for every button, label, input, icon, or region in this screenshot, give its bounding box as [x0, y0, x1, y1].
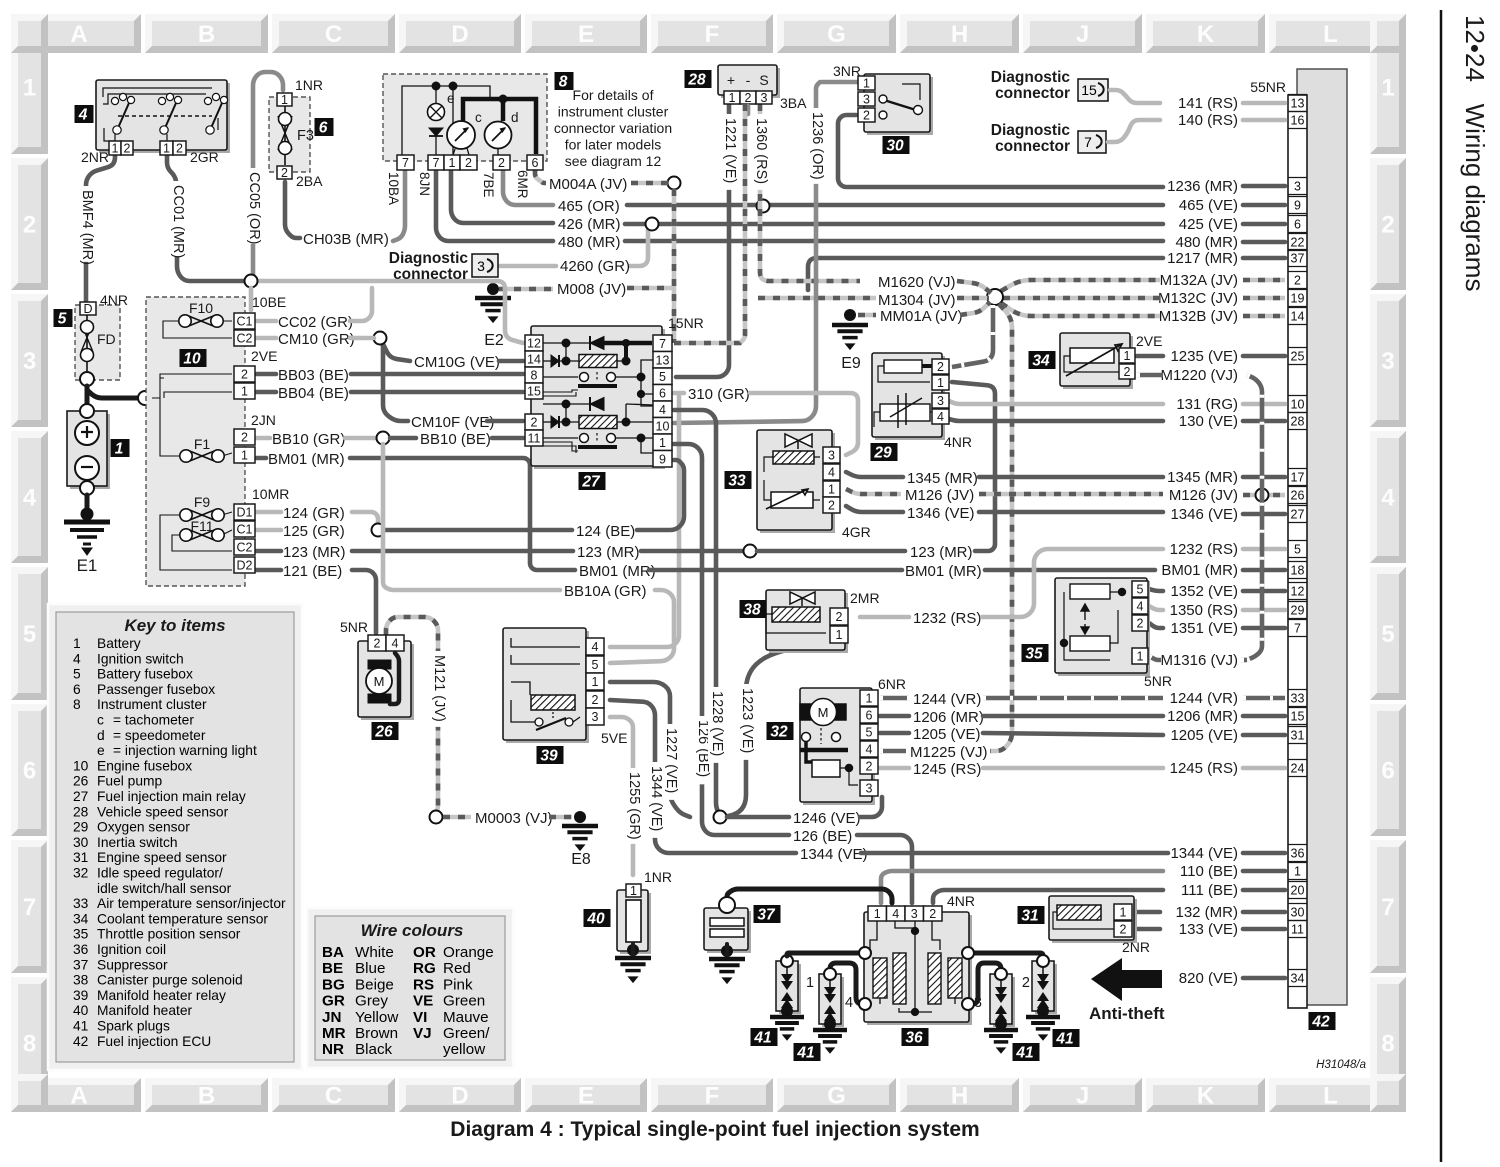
connector 42 pin column [1288, 95, 1307, 1009]
label BMF4 (MR) [78, 186, 96, 262]
svg-text:6NR: 6NR [878, 676, 906, 692]
svg-text:Diagram 4 : Typical single-poi: Diagram 4 : Typical single-point fuel in… [450, 1118, 979, 1141]
svg-text:1: 1 [281, 93, 288, 107]
svg-text:8: 8 [559, 74, 568, 91]
wire 310 branch down [610, 396, 679, 647]
svg-text:14: 14 [527, 353, 541, 367]
ground U37 [709, 959, 745, 983]
svg-text:NR: NR [322, 1041, 344, 1058]
svg-text:11: 11 [1291, 923, 1304, 937]
svg-text:6: 6 [866, 709, 873, 723]
node CM10 [374, 332, 387, 345]
wire 1255 (GR) [610, 717, 633, 875]
svg-text:4: 4 [866, 743, 873, 757]
svg-text:2: 2 [498, 156, 505, 170]
wire M132B [1001, 303, 1160, 316]
idle speed regulator U32 [800, 688, 875, 805]
svg-text:BM01 (MR): BM01 (MR) [1161, 562, 1238, 579]
ground plug4 [813, 1030, 847, 1053]
wire M0003 right [549, 815, 572, 820]
svg-text:36: 36 [73, 942, 89, 957]
item label 4 [75, 105, 94, 124]
svg-text:480 (MR): 480 (MR) [558, 234, 621, 251]
svg-text:123 (MR): 123 (MR) [283, 544, 346, 561]
ground dot E2 [487, 283, 499, 295]
node battery top edge [80, 404, 94, 418]
wire M004A to node [631, 181, 668, 186]
ground dot MM01A [844, 309, 856, 321]
wire CM10F vert [383, 344, 408, 421]
svg-text:1: 1 [73, 636, 81, 651]
svg-text:Grey: Grey [355, 993, 388, 1010]
inertia switch U30 [864, 74, 933, 135]
wire stub 1205 (VE) to pin [1243, 733, 1285, 738]
wire pump internal [390, 653, 399, 704]
wire M121 (JV) [386, 617, 438, 812]
svg-text:Passenger fusebox: Passenger fusebox [97, 682, 215, 697]
item label 28 [685, 70, 712, 89]
wire M126 row [846, 489, 901, 494]
svg-text:34: 34 [1032, 353, 1050, 370]
svg-text:L: L [1323, 21, 1338, 48]
connector pins U38 [830, 608, 848, 643]
wire CM10 right [350, 336, 374, 341]
svg-text:110 (BE): 110 (BE) [1180, 863, 1238, 880]
wire M126 mid [979, 492, 1163, 497]
wire 1350 stub [1149, 606, 1163, 610]
svg-text:26: 26 [73, 774, 89, 789]
svg-text:2: 2 [937, 360, 944, 374]
svg-text:BM01 (MR): BM01 (MR) [268, 451, 345, 468]
svg-text:6: 6 [532, 156, 539, 170]
svg-text:38: 38 [73, 973, 89, 988]
wire 1360 to pin7 [740, 104, 745, 343]
svg-text:C: C [325, 21, 342, 48]
wire 125 stub [256, 528, 281, 533]
svg-text:connector: connector [995, 85, 1070, 102]
svg-text:24: 24 [1291, 762, 1305, 776]
svg-text:10BA: 10BA [386, 172, 401, 205]
svg-text:d: d [97, 728, 105, 743]
wire colours box [307, 908, 513, 1068]
svg-text:K: K [1197, 1083, 1215, 1110]
svg-text:RS: RS [413, 976, 434, 993]
wire CC02 [256, 319, 276, 324]
svg-text:F: F [705, 1083, 720, 1110]
svg-text:Pink: Pink [443, 976, 473, 993]
svg-text:4: 4 [828, 466, 835, 480]
svg-text:J: J [1076, 1083, 1089, 1110]
svg-text:10BE: 10BE [252, 294, 286, 310]
svg-text:465 (OR): 465 (OR) [558, 198, 620, 215]
instrument cluster U8 box [383, 74, 547, 161]
svg-text:35: 35 [1025, 646, 1043, 663]
svg-text:Diagnostic: Diagnostic [991, 122, 1071, 139]
wire M1316 stub [1149, 656, 1161, 660]
svg-text:M: M [818, 705, 829, 720]
svg-text:13: 13 [1291, 97, 1305, 111]
fuel pump U26 [358, 641, 414, 720]
svg-text:36: 36 [1291, 847, 1305, 861]
wire MM01A right [960, 302, 990, 315]
pump motor [366, 660, 392, 703]
svg-text:= injection warning light: = injection warning light [113, 743, 257, 758]
svg-text:Diagnostic: Diagnostic [389, 250, 469, 267]
svg-text:Black: Black [355, 1041, 393, 1058]
ground dot E8 [574, 811, 586, 823]
svg-text:4: 4 [392, 637, 399, 651]
wire 141 (RS) [1110, 90, 1160, 103]
svg-text:9: 9 [659, 452, 666, 466]
wire CC02 right [350, 288, 372, 321]
ignition switch internals [103, 88, 228, 141]
fusebox internal bus [152, 321, 232, 570]
suppressor plates [710, 918, 744, 937]
svg-text:Engine speed sensor: Engine speed sensor [97, 850, 227, 865]
wire 1236 (MR) row [838, 115, 1163, 187]
wire 124 right [352, 512, 378, 526]
node 123 [744, 545, 757, 558]
wire 1236 (OR) [674, 82, 820, 423]
ignition switch U4 [96, 80, 230, 153]
svg-text:6: 6 [73, 682, 81, 697]
diagnostic connector 7 box [1078, 131, 1106, 153]
svg-text:4: 4 [892, 907, 899, 921]
svg-text:132 (MR): 132 (MR) [1175, 904, 1238, 921]
svg-text:BB03 (BE): BB03 (BE) [278, 367, 349, 384]
wire stub 820 (VE) to pin [1243, 976, 1285, 981]
svg-text:2: 2 [1294, 274, 1301, 288]
node M0003 [430, 811, 443, 824]
svg-text:1: 1 [592, 675, 599, 689]
svg-text:5: 5 [1137, 583, 1144, 597]
wire 124 stub [256, 510, 281, 515]
wire BB04 right [351, 390, 523, 395]
wire 126 (BE) vert [674, 444, 789, 835]
svg-text:310 (GR): 310 (GR) [688, 386, 750, 403]
wire M008 chain vertical [672, 189, 677, 343]
svg-text:28: 28 [73, 804, 89, 819]
item label 32 [767, 722, 794, 741]
svg-text:Throttle position sensor: Throttle position sensor [97, 927, 241, 942]
relay U39 internals [511, 638, 580, 730]
wire 425 row mid [625, 222, 1163, 227]
svg-text:B: B [198, 21, 215, 48]
svg-text:1360 (RS): 1360 (RS) [753, 118, 769, 184]
svg-text:1: 1 [828, 483, 835, 497]
wire 1344 (VE) vert [610, 700, 796, 853]
svg-text:D: D [83, 302, 92, 316]
svg-text:3: 3 [828, 449, 835, 463]
svg-text:4: 4 [937, 410, 944, 424]
svg-text:E1: E1 [77, 556, 98, 575]
svg-text:14: 14 [1291, 310, 1305, 324]
relay U27 left pins [525, 335, 543, 446]
item label 27 [579, 472, 606, 491]
svg-text:1345 (MR): 1345 (MR) [907, 470, 978, 487]
svg-text:32: 32 [73, 866, 88, 881]
svg-text:A: A [70, 1083, 87, 1110]
svg-text:For details of: For details of [573, 87, 654, 103]
relay U27 internals [543, 336, 645, 396]
svg-text:M1225 (VJ): M1225 (VJ) [910, 744, 988, 761]
wire 1344 row [861, 851, 1168, 856]
wire coil left top [792, 951, 860, 956]
svg-text:5: 5 [659, 370, 666, 384]
svg-text:MM01A (JV): MM01A (JV) [880, 308, 963, 325]
svg-text:1205 (VE): 1205 (VE) [1170, 727, 1238, 744]
svg-text:22: 22 [1291, 236, 1305, 250]
wire M132C [1003, 296, 1160, 301]
wire CH03B to cluster [393, 170, 405, 241]
svg-text:e: e [97, 743, 105, 758]
wire stub 140 (RS) to pin [1243, 118, 1285, 123]
wire stub 133 (VE) to pin [1243, 927, 1285, 932]
fuse FD [81, 315, 94, 372]
item label 41d [1053, 1029, 1080, 1048]
ground E2 [475, 298, 511, 322]
wire M0003 stub [443, 815, 471, 820]
label 126 (BE) [694, 716, 712, 784]
svg-text:2: 2 [1022, 975, 1030, 991]
svg-text:1351 (VE): 1351 (VE) [1170, 620, 1238, 637]
ground U40 [615, 958, 651, 982]
svg-text:4NR: 4NR [944, 434, 972, 450]
svg-text:CM10 (GR): CM10 (GR) [278, 331, 355, 348]
wire 1244 mid [983, 696, 1163, 701]
wire M1225 row [880, 749, 906, 754]
svg-text:18: 18 [1291, 564, 1305, 578]
wire CM10 stub [256, 336, 276, 341]
svg-text:41: 41 [73, 1019, 88, 1034]
svg-text:Air temperature sensor/injecto: Air temperature sensor/injector [97, 896, 286, 911]
label CC05 (OR) [245, 168, 263, 244]
svg-text:7: 7 [23, 894, 36, 921]
svg-text:3NR: 3NR [833, 63, 861, 79]
svg-text:2: 2 [863, 109, 870, 123]
svg-text:M0003 (VJ): M0003 (VJ) [475, 810, 553, 827]
svg-text:8: 8 [1381, 1031, 1394, 1058]
svg-text:3: 3 [592, 710, 599, 724]
wire 1221 (VE) [676, 104, 729, 377]
svg-text:OR: OR [413, 944, 436, 961]
sensor symbol U34 [1064, 344, 1122, 376]
svg-text:40: 40 [73, 1003, 89, 1018]
svg-text:1228 (VE): 1228 (VE) [709, 691, 725, 756]
svg-text:M132B (JV): M132B (JV) [1159, 308, 1238, 325]
svg-text:D: D [451, 21, 468, 48]
svg-text:29: 29 [873, 445, 892, 462]
wire M1220/M1316 vert [1247, 375, 1262, 660]
svg-text:Coolant temperature sensor: Coolant temperature sensor [97, 911, 268, 926]
wire stub 141 (RS) to pin [1243, 101, 1285, 106]
item label 40 [584, 909, 611, 928]
wire 1235 stub [1137, 354, 1163, 359]
ground E9 [832, 325, 868, 349]
svg-text:5: 5 [592, 658, 599, 672]
wire BB10A right [610, 590, 674, 663]
wire 123 long2 [641, 549, 744, 554]
svg-text:E9: E9 [841, 355, 861, 372]
svg-text:126 (BE): 126 (BE) [793, 828, 852, 845]
svg-text:2BA: 2BA [296, 173, 323, 189]
svg-text:RG: RG [413, 960, 436, 977]
wire M004A stub [535, 170, 546, 183]
wire CH03B (MR) [285, 182, 300, 238]
wire relay pin7 link [674, 341, 742, 346]
wire stub 480 (MR) to pin [1243, 240, 1285, 245]
svg-text:Instrument cluster: Instrument cluster [97, 697, 207, 712]
wire 465 row mid [627, 203, 1163, 208]
svg-text:G: G [827, 1083, 846, 1110]
wire BB03 right [351, 372, 523, 377]
svg-text:Wire colours: Wire colours [361, 921, 464, 940]
wire stub 425 (VE) to pin [1243, 222, 1285, 227]
svg-text:1217 (MR): 1217 (MR) [1167, 250, 1238, 267]
svg-text:1255 (GR): 1255 (GR) [626, 772, 642, 840]
svg-text:1NR: 1NR [644, 869, 672, 885]
wire 1217 row [808, 258, 1163, 290]
item label 29 [871, 443, 898, 462]
wire 1346 mid [979, 510, 1163, 515]
wire 480 row mid [625, 239, 1163, 244]
svg-text:1: 1 [449, 156, 456, 170]
svg-text:1232 (RS): 1232 (RS) [913, 610, 981, 627]
wire 1206 mid [983, 714, 1163, 719]
wire 124 (BE) right [637, 460, 684, 530]
item label 41a [751, 1028, 778, 1047]
svg-text:4GR: 4GR [842, 524, 871, 540]
svg-text:28: 28 [687, 72, 706, 89]
svg-text:34: 34 [1291, 972, 1305, 986]
svg-text:idle switch/hall sensor: idle switch/hall sensor [97, 881, 232, 896]
svg-text:39: 39 [540, 748, 558, 765]
svg-text:4260 (GR): 4260 (GR) [560, 258, 630, 275]
svg-text:connector variation: connector variation [554, 120, 672, 136]
svg-text:Diagnostic: Diagnostic [991, 69, 1071, 86]
passenger fusebox U6 [269, 97, 310, 172]
svg-text:2: 2 [929, 907, 936, 921]
svg-text:4: 4 [1381, 485, 1395, 512]
svg-text:41: 41 [753, 1030, 771, 1047]
wire 3NR stub [822, 80, 858, 85]
wire M1304 [758, 296, 876, 301]
svg-text:F11: F11 [190, 518, 213, 534]
wire 1246 row [727, 815, 789, 820]
svg-text:1223 (VE): 1223 (VE) [739, 688, 755, 753]
svg-text:38: 38 [743, 602, 761, 619]
svg-text:CH03B (MR): CH03B (MR) [303, 231, 389, 248]
svg-text:1: 1 [115, 441, 124, 458]
svg-text:VJ: VJ [413, 1025, 432, 1042]
svg-text:GR: GR [322, 993, 345, 1010]
wire BB10A down [383, 444, 560, 590]
coil node right top [962, 947, 974, 959]
svg-text:8: 8 [73, 697, 81, 712]
svg-text:1: 1 [866, 692, 873, 706]
svg-text:9: 9 [1294, 199, 1301, 213]
svg-text:36: 36 [905, 1030, 923, 1047]
svg-text:Red: Red [443, 960, 471, 977]
connector D [80, 302, 96, 316]
svg-text:6: 6 [319, 120, 328, 137]
svg-text:2GR: 2GR [190, 149, 219, 165]
svg-text:1205 (VE): 1205 (VE) [913, 726, 981, 743]
svg-text:F10: F10 [189, 300, 213, 316]
svg-text:Spark plugs: Spark plugs [97, 1019, 170, 1034]
svg-text:M132C (JV): M132C (JV) [1158, 290, 1238, 307]
wire stub 1206 (MR) to pin [1243, 714, 1285, 719]
wire battery to ground [85, 495, 90, 512]
suppressor top terminal [719, 897, 735, 913]
svg-text:3: 3 [974, 995, 982, 1011]
svg-text:1: 1 [163, 142, 170, 156]
svg-text:7: 7 [433, 156, 440, 170]
item label 1 [111, 439, 130, 458]
svg-text:26: 26 [374, 724, 393, 741]
wire 480 row left [436, 170, 553, 241]
svg-text:27: 27 [1291, 508, 1305, 522]
svg-text:1206 (MR): 1206 (MR) [1167, 708, 1238, 725]
junction dot U37 [721, 945, 733, 957]
svg-text:1: 1 [1124, 349, 1131, 363]
label 1228 (VE) [708, 687, 726, 763]
svg-text:2: 2 [1381, 212, 1394, 239]
svg-text:E: E [578, 1083, 594, 1110]
svg-text:CM10F (VE): CM10F (VE) [411, 414, 494, 431]
svg-text:480 (MR): 480 (MR) [1175, 234, 1238, 251]
svg-text:M1620 (VJ): M1620 (VJ) [878, 274, 956, 291]
svg-text:+: + [727, 72, 735, 88]
svg-text:33: 33 [728, 473, 746, 490]
item label 42 [1309, 1012, 1336, 1031]
svg-text:MR: MR [322, 1025, 346, 1042]
svg-text:41: 41 [1055, 1031, 1073, 1048]
svg-text:Green/: Green/ [443, 1025, 490, 1042]
wire pin2 stub U28 [746, 106, 751, 114]
svg-text:BE: BE [322, 960, 343, 977]
wire stub 1351 (VE) to pin [1243, 626, 1285, 631]
svg-text:connector: connector [393, 266, 468, 283]
svg-text:BB10 (BE): BB10 (BE) [420, 431, 491, 448]
junction dot U40 [627, 944, 639, 956]
wire BM01 stub [256, 456, 266, 461]
wire 1228 (VE) [674, 410, 718, 812]
connector pins U34 [1119, 348, 1135, 379]
svg-text:15: 15 [527, 385, 541, 399]
relay U27 unit2 pin15 line fix [530, 447, 532, 449]
label 1221 (VE) [721, 114, 739, 190]
wire coil right bottom [972, 963, 1001, 1004]
svg-text:1246 (VE): 1246 (VE) [793, 810, 861, 827]
wire 1352 stub [1149, 589, 1163, 591]
wire stub BM01 (MR) to pin [1243, 568, 1285, 573]
connector pins U28 [724, 91, 772, 105]
svg-text:26: 26 [1291, 489, 1305, 503]
svg-text:5NR: 5NR [340, 619, 368, 635]
svg-text:E8: E8 [571, 851, 591, 868]
svg-text:F3: F3 [297, 128, 314, 144]
svg-text:1245 (RS): 1245 (RS) [1170, 760, 1238, 777]
coolant temperature sensor U34 [1060, 333, 1133, 389]
wire 123 stub [256, 549, 281, 554]
svg-text:BMF4 (MR): BMF4 (MR) [79, 190, 95, 265]
svg-text:5: 5 [23, 621, 36, 648]
label 1344 (VE) [647, 762, 665, 838]
svg-text:Anti-theft: Anti-theft [1089, 1004, 1165, 1023]
svg-text:1221 (VE): 1221 (VE) [722, 118, 738, 183]
svg-text:7BE: 7BE [481, 172, 496, 198]
